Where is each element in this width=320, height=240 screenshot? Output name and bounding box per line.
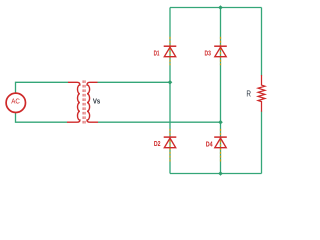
transformer core dashed lines (83, 80, 85, 123)
junction dot: bottom rail / middle branch (218, 171, 223, 176)
wire: AC source bottom lead to transformer primary (16, 113, 68, 122)
AC source V1 circle (6, 93, 25, 112)
pin lead D3 (yellow dashed) (220, 37, 222, 66)
pin lead D1 (yellow dashed) (169, 37, 171, 66)
wire: left bridge branch (D1/D2) vertical (169, 8, 171, 174)
wire: bottom rail from left branch to right branch (170, 173, 262, 175)
transformer T1 secondary winding (87, 82, 98, 122)
svg-text:D3: D3 (205, 48, 211, 57)
svg-text:D2: D2 (154, 139, 161, 148)
wire: secondary bottom to middle branch junction (98, 121, 221, 123)
diode D3 (bar + triangle) (214, 46, 227, 57)
diode D2 (bar + triangle) (164, 137, 177, 148)
pin lead D2 (yellow dashed) (169, 129, 171, 162)
diode D4 (bar + triangle) (214, 137, 227, 148)
wire: secondary top to left branch junction (98, 81, 171, 83)
svg-text:D4: D4 (206, 140, 214, 149)
junction dot: secondary bottom / middle branch (218, 120, 223, 125)
wire: AC source top lead to transformer primary (16, 82, 69, 93)
wire: middle bridge branch (D3/D4) vertical (220, 8, 222, 174)
diode D1 (bar + triangle) (164, 46, 177, 57)
svg-text:AC: AC (11, 96, 20, 105)
junction dot: secondary top / left branch (168, 80, 173, 85)
pin lead D4 (yellow dashed) (220, 129, 222, 162)
resistor R (zigzag) (258, 75, 265, 112)
svg-text:D1: D1 (154, 49, 160, 58)
svg-text:R: R (246, 89, 251, 98)
transformer T1 primary winding (67, 82, 80, 122)
wire: right branch lower segment from resistor (261, 112, 263, 174)
wire: top rail from left branch to right branch (170, 7, 262, 9)
junction dot: top rail / middle branch (218, 5, 223, 10)
svg-text:Vs: Vs (93, 97, 100, 106)
wire: right branch upper segment to resistor (261, 8, 263, 76)
